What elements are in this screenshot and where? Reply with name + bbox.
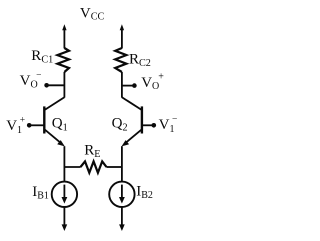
label IB1 <box>32 184 49 202</box>
transistor Q2 <box>122 97 142 146</box>
input terminal V1- : dot and wire <box>142 123 156 128</box>
label Q2 <box>112 116 128 134</box>
node VO- : wire and dot <box>44 83 64 88</box>
current source IB1 <box>52 182 77 207</box>
resistor RC1 <box>57 48 69 72</box>
label V1- <box>159 115 178 135</box>
label RE <box>84 142 100 160</box>
label RC1 <box>31 48 53 66</box>
label VO- <box>20 71 42 90</box>
wire: RC2 bottom to Q2 collector <box>121 72 123 98</box>
label VO+ <box>141 71 164 92</box>
label RC2 <box>129 51 151 69</box>
wire: left bottom arrow to negative supply <box>62 207 68 231</box>
wire: Q1 emitter down <box>63 146 65 182</box>
resistor RE with leads <box>64 161 122 172</box>
net VCC label <box>80 5 105 22</box>
label Q1 <box>52 116 68 134</box>
label IB2 <box>136 184 153 202</box>
node VO+ : wire and dot <box>122 83 137 88</box>
wire: Q2 emitter down <box>121 146 123 182</box>
input terminal V1+ : dot and wire <box>27 123 44 128</box>
label V1+ <box>6 115 25 136</box>
resistor RC2 <box>115 48 126 72</box>
wire: left supply arrow to VCC <box>62 24 66 48</box>
wire: right supply arrow to VCC <box>120 24 124 48</box>
wire: RC1 bottom to Q1 collector <box>63 72 65 98</box>
transistor Q1 <box>44 97 65 146</box>
wire: right bottom arrow to negative supply <box>119 207 125 231</box>
current source IB2 <box>109 182 134 207</box>
